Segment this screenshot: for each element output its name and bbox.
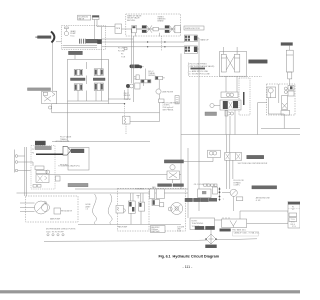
spec text <box>234 180 244 187</box>
right pump dashed box <box>267 84 296 115</box>
rail2 <box>130 121 160 123</box>
edge box <box>136 75 139 80</box>
svg-text:M1 PRESSURE CHECK PORTS: M1 PRESSURE CHECK PORTS <box>46 229 76 231</box>
wire <box>74 55 76 60</box>
svg-text:VALVE: VALVE <box>78 18 85 21</box>
tank text <box>232 229 259 235</box>
regulator box <box>54 208 73 214</box>
pump inlet wires <box>20 203 35 212</box>
coupling <box>80 39 86 44</box>
pilot valve ru <box>94 69 103 76</box>
wires to swing valves <box>102 39 184 47</box>
fan spec box <box>151 226 166 234</box>
svg-text:P2 LINE: P2 LINE <box>118 51 125 53</box>
pump text <box>70 30 76 37</box>
solenoid valve 1 <box>141 80 151 87</box>
travel label <box>205 112 217 116</box>
left valve box <box>42 91 57 104</box>
oil cooler core <box>198 189 211 198</box>
travel motor top box <box>221 92 238 98</box>
wires <box>268 79 289 129</box>
pipe box <box>115 24 122 33</box>
engine sub label <box>69 51 83 54</box>
right riser <box>107 59 109 103</box>
wires <box>173 158 214 183</box>
port label bar 1 <box>195 226 204 229</box>
tank wires <box>215 211 289 224</box>
wire long <box>101 27 103 69</box>
filter circle <box>156 89 161 94</box>
legend table <box>288 202 300 229</box>
small box <box>236 197 243 201</box>
svg-text:P3: P3 <box>121 54 123 56</box>
travel dashed box <box>239 78 250 115</box>
riser dashed <box>125 104 127 135</box>
rail wires <box>52 104 160 113</box>
travel speed valve <box>36 175 49 183</box>
tank <box>222 217 247 227</box>
swing valve block 1 <box>184 35 197 42</box>
engine label bar <box>86 39 97 43</box>
svg-text:(PATTERN CHANGE VALVE): (PATTERN CHANGE VALVE) <box>190 65 215 68</box>
long wire <box>75 188 188 190</box>
right pump sub box <box>267 87 276 98</box>
pipe run b <box>132 36 134 102</box>
box bottom wires <box>63 46 98 48</box>
pilot valve rl <box>94 83 103 91</box>
svg-text:SUCTION LINE / RETURN FILTER: SUCTION LINE / RETURN FILTER <box>238 163 268 165</box>
drain check box <box>175 96 179 104</box>
long label bar <box>252 186 277 189</box>
svg-text:MAKE UP: MAKE UP <box>201 39 210 42</box>
valve texts <box>148 71 156 77</box>
third valve <box>152 200 160 206</box>
drain plugs <box>33 185 41 188</box>
pump dark block <box>97 39 102 44</box>
right filter <box>282 96 288 110</box>
page edge band <box>0 290 300 293</box>
bottom rail <box>78 223 181 225</box>
hose curve 1 <box>93 194 97 225</box>
svg-text:T: T <box>223 199 225 201</box>
svg-text:TIGHTENING: TIGHTENING <box>192 223 204 225</box>
pump symbol <box>64 27 68 36</box>
fan motor box <box>208 150 221 157</box>
wire <box>122 28 132 30</box>
center pump circles <box>126 83 140 89</box>
svg-text:SET PRESS.: SET PRESS. <box>163 109 175 111</box>
svg-text:T DR: T DR <box>121 57 126 59</box>
svg-text:2SPEED: 2SPEED <box>148 75 156 77</box>
wire to pipe <box>97 26 115 28</box>
divider <box>278 84 280 103</box>
wire <box>181 54 197 56</box>
svg-text:0.1MPa: 0.1MPa <box>234 185 240 187</box>
svg-text:P2: P2 <box>32 153 34 155</box>
cooler small box 2 <box>156 189 164 199</box>
fan aux circle <box>168 207 172 211</box>
long wire <box>17 192 189 194</box>
left texts <box>60 136 72 141</box>
oil cooler dashed box <box>118 188 186 231</box>
long rail <box>52 141 150 143</box>
wires cyl to travel <box>226 76 237 92</box>
svg-text:MAX 96dB: MAX 96dB <box>151 230 160 233</box>
svg-text:TRAVEL: TRAVEL <box>60 138 67 141</box>
swing valve block 2 <box>184 46 197 54</box>
main return line <box>180 54 182 190</box>
pump wires <box>108 88 131 99</box>
return valve cluster <box>225 153 242 161</box>
svg-text:Hydraulic Circuit Diagram: Hydraulic Circuit Diagram <box>173 254 220 258</box>
return pump circle <box>230 189 237 196</box>
port texts <box>32 149 34 155</box>
cooler label bar 1 <box>158 184 172 187</box>
wire <box>56 41 61 43</box>
tiny fitting <box>124 47 127 49</box>
cooler line texts <box>194 184 210 186</box>
note box <box>190 218 215 230</box>
fitting box <box>56 176 61 181</box>
svg-text:SWING MOTOR: SWING MOTOR <box>185 28 200 30</box>
svg-text:TO/SWING: TO/SWING <box>135 188 145 190</box>
svg-text:9.5cc: 9.5cc <box>70 35 75 37</box>
port circles <box>47 234 64 236</box>
legend outline <box>233 231 259 236</box>
pilot unit dashed box <box>31 146 55 190</box>
engine pump dashed box <box>61 26 105 50</box>
pilot hatch bar right <box>93 78 105 81</box>
travel pilot label <box>28 88 51 91</box>
left drop <box>258 103 268 135</box>
manifold label <box>68 183 88 186</box>
fan motor label <box>164 160 183 163</box>
spec texts <box>177 226 185 232</box>
svg-text:P2: P2 <box>292 209 294 211</box>
supply arrow head <box>63 146 71 155</box>
long wire <box>49 174 181 176</box>
inlet relief valve <box>116 206 124 214</box>
left port circles <box>15 155 31 172</box>
cooler small box 1 <box>150 189 155 199</box>
riser <box>187 148 189 218</box>
air bleed text <box>256 197 271 202</box>
svg-text:Fig. 6.1: Fig. 6.1 <box>159 254 171 258</box>
port list texts <box>118 48 126 59</box>
wire <box>52 43 54 92</box>
center manifold box <box>68 148 89 171</box>
svg-text:G1/4 : P1 P2 P3 PP: G1/4 : P1 P2 P3 PP <box>46 231 64 233</box>
right bits <box>281 111 290 116</box>
swing dashed divider <box>161 36 163 51</box>
hose texts <box>86 204 92 211</box>
arm cylinder <box>286 46 293 79</box>
swivel joint arrow <box>51 32 54 43</box>
pilot valve lu <box>74 69 82 75</box>
svg-text:CAPACITY 166 L / TOTAL 270 L: CAPACITY 166 L / TOTAL 270 L <box>234 231 260 234</box>
cooler label row <box>185 198 217 201</box>
travel down wires <box>226 110 235 135</box>
return filter diamond <box>205 230 217 245</box>
svg-text:BRAKE: BRAKE <box>158 20 165 23</box>
junction dots <box>147 41 166 47</box>
cluster label <box>247 155 264 158</box>
pilot note text <box>163 102 181 111</box>
filter label <box>206 245 217 248</box>
pilot valve ll <box>74 84 82 91</box>
svg-text:PIPE: PIPE <box>116 28 121 30</box>
wires <box>159 94 161 121</box>
rail <box>126 121 160 123</box>
pilot hatch bar left <box>71 78 86 81</box>
svg-text:b : BOOM SPOOL LINE: b : BOOM SPOOL LINE <box>190 73 211 75</box>
supply arrow line <box>36 153 63 155</box>
center pump text <box>134 77 138 81</box>
swing circuit dashed box <box>126 14 181 36</box>
arm cylinder label <box>281 43 293 46</box>
dark edge bar <box>243 92 245 105</box>
accumulator label <box>35 146 51 149</box>
check valve column <box>213 187 221 201</box>
relief valve <box>123 116 131 124</box>
main pump dashed box <box>26 196 78 222</box>
bottom border line <box>44 239 257 242</box>
svg-text:ANTI-INV.: ANTI-INV. <box>127 19 136 22</box>
solenoid label box <box>78 15 91 20</box>
accumulator <box>35 141 46 146</box>
small rects <box>160 203 164 207</box>
svg-text:P1: P1 <box>32 149 34 151</box>
svg-text:RETURN: RETURN <box>60 165 68 167</box>
port label bar 2 <box>206 226 215 229</box>
fan valve <box>167 165 179 180</box>
svg-text:RELIEF: RELIEF <box>124 95 131 97</box>
swing motor assembly <box>131 25 181 36</box>
port plug <box>139 65 145 79</box>
dashed boundary <box>189 76 262 78</box>
small symbol <box>48 106 51 109</box>
hose curve 2 <box>108 194 112 225</box>
wire <box>27 162 33 166</box>
cooler label bar 2 <box>173 184 184 187</box>
svg-text:- 111 -: - 111 - <box>183 265 194 269</box>
relief texts <box>124 93 131 101</box>
left riser <box>67 101 69 142</box>
swivel joint label <box>38 36 52 39</box>
pipe run a <box>130 29 132 83</box>
boom cylinders box <box>219 47 246 76</box>
solenoid valve unit <box>92 16 99 20</box>
svg-text:NOTE:: NOTE: <box>192 221 198 223</box>
rails <box>181 129 300 135</box>
svg-text:FAN PUMP: FAN PUMP <box>118 226 128 229</box>
junction dot <box>124 103 125 104</box>
bracket <box>187 63 190 76</box>
right pump cluster <box>284 86 294 97</box>
left risers <box>25 147 27 196</box>
fan circle <box>171 203 183 215</box>
svg-text:G 3/8: G 3/8 <box>256 200 260 202</box>
pilot valve group box <box>68 59 109 101</box>
svg-text:S710: S710 <box>292 226 296 228</box>
svg-text:G 1/2: G 1/2 <box>177 230 181 232</box>
supply label <box>71 149 84 153</box>
pilot wires down <box>95 20 98 40</box>
swing text labels <box>127 15 166 23</box>
boom cylinder label <box>249 60 268 63</box>
pattern change note <box>190 64 215 76</box>
shuttle cluster <box>122 188 145 224</box>
svg-text:REGULATOR: REGULATOR <box>61 210 73 213</box>
main pump circle <box>35 201 50 214</box>
line damper capsule <box>130 65 141 69</box>
fitting boxes row <box>204 184 217 186</box>
solenoid valve 2 <box>155 76 165 89</box>
travel valve block <box>220 100 241 110</box>
swing motor label <box>184 26 204 30</box>
drops to filter cluster <box>227 135 230 153</box>
lower valve cluster <box>35 166 50 174</box>
svg-text:LINE FILTER: LINE FILTER <box>162 92 174 94</box>
wires <box>222 192 234 211</box>
small box <box>159 99 165 103</box>
gauge circle <box>210 103 220 107</box>
svg-text:MAIN PUMP: MAIN PUMP <box>50 218 61 221</box>
tank label <box>220 229 231 232</box>
boundary line <box>13 150 15 173</box>
svg-text:x 4: x 4 <box>86 209 88 211</box>
pilot internal wires <box>78 62 102 101</box>
check port note <box>46 229 76 234</box>
swing drain wire <box>197 38 199 211</box>
wires down <box>227 160 233 189</box>
travel sub circles <box>225 111 233 117</box>
